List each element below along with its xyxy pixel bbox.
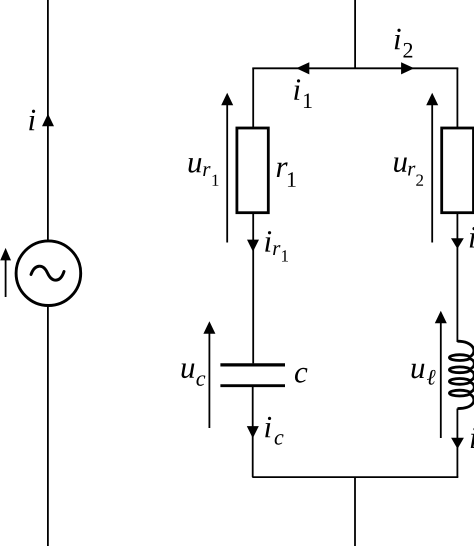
wire top horizontal	[252, 67, 458, 69]
wire r2 to inductor	[456, 213, 458, 342]
label r1	[277, 162, 288, 177]
ac source sine wave	[31, 266, 64, 280]
wire bottom middle vertical	[354, 477, 356, 546]
label i2	[395, 29, 401, 50]
wire left branch above r1	[252, 68, 254, 128]
voltage arrow u_c	[203, 321, 215, 428]
wire left vertical top segment	[47, 0, 49, 241]
capacitor c bottom plate	[220, 384, 285, 387]
voltage arrow u_r1	[221, 93, 233, 243]
current arrow i_l	[451, 438, 464, 449]
current arrow i1 (left)	[296, 62, 309, 74]
voltage arrow u (source, cut at left edge)	[0, 248, 11, 297]
label i_r2 (cut at right edge)	[470, 227, 474, 248]
wire bottom horizontal	[252, 476, 458, 478]
label i_r1	[265, 231, 288, 261]
label u_l	[412, 364, 436, 385]
current arrow i_c	[247, 426, 259, 438]
label i1	[294, 79, 300, 100]
capacitor c top plate	[220, 363, 285, 366]
label u_r1	[189, 158, 219, 186]
resistor r1	[237, 128, 268, 213]
wire r1 to capacitor	[252, 213, 254, 364]
current arrow i_r2	[451, 238, 464, 249]
inductor l coil	[449, 341, 474, 408]
current arrow i2 (right)	[401, 62, 414, 74]
wire capacitor to bottom	[252, 387, 254, 477]
label u_r2	[394, 157, 423, 185]
ac source U1 circle	[16, 241, 81, 306]
current arrow i_r1	[247, 240, 259, 252]
wire right branch above r2	[456, 68, 458, 128]
wire left vertical bottom segment	[47, 306, 49, 546]
voltage arrow u_r2	[426, 93, 438, 243]
wire top middle vertical	[354, 0, 356, 68]
label i_c	[265, 417, 283, 445]
current arrow i on left wire	[42, 114, 54, 126]
wire inductor to bottom	[456, 409, 458, 478]
label c	[295, 368, 307, 383]
label u_c	[182, 363, 206, 385]
label i_l (cut at right edge)	[471, 427, 474, 448]
resistor r2	[442, 128, 474, 213]
label i	[29, 110, 35, 131]
voltage arrow u_l	[435, 311, 447, 438]
